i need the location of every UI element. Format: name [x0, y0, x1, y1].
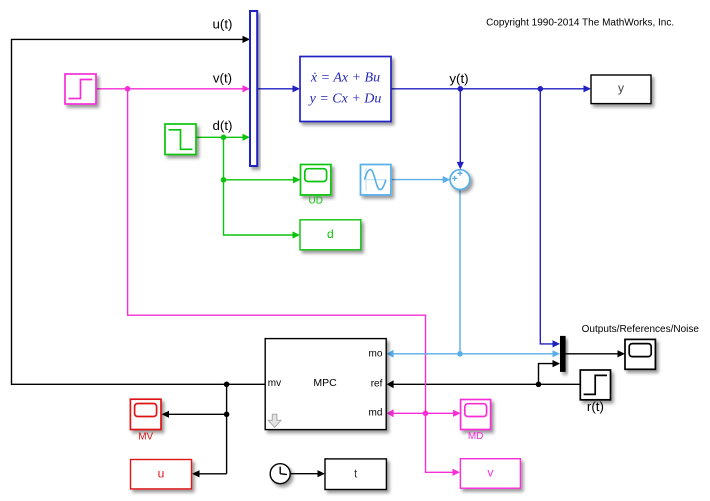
junction d(t) line [221, 135, 227, 141]
step source d(t) [165, 124, 196, 155]
junction y(t) to mux M2 [538, 86, 544, 92]
svg-text:ẋ = Ax + Bu: ẋ = Ax + Bu [310, 71, 380, 86]
junction mo line [457, 351, 463, 357]
wire v(t) branch to MPC md, MD scope and v tag [128, 89, 461, 476]
svg-text:v(t): v(t) [213, 71, 232, 86]
junction d to UD [221, 177, 227, 183]
svg-text:r(t): r(t) [587, 399, 604, 414]
u goto tag [131, 460, 192, 489]
wire mux M1 to state-space [257, 85, 300, 92]
sine wave source [361, 165, 391, 195]
wire d(t) branch to UD scope and d tag [224, 137, 301, 238]
svg-text:Outputs/References/Noise: Outputs/References/Noise [582, 324, 700, 335]
svg-text:y(t): y(t) [449, 71, 468, 86]
svg-text:MV: MV [138, 432, 153, 443]
svg-text:md: md [368, 408, 382, 419]
wire r(t) to MPC ref and mux M2 [290, 350, 625, 477]
svg-text:MD: MD [468, 431, 484, 442]
v goto tag [460, 459, 520, 489]
scope MV [130, 399, 161, 429]
svg-text:d(t): d(t) [213, 118, 233, 133]
svg-text:v: v [487, 466, 493, 480]
junction md line [423, 411, 429, 417]
wire sum output to MPC mo and mux M2 [387, 190, 560, 358]
junction v(t) line [125, 86, 131, 92]
svg-text:mv: mv [268, 378, 281, 389]
step source r(t) [580, 370, 610, 400]
mux M1 [250, 11, 257, 166]
svg-text:UD: UD [308, 195, 322, 206]
svg-text:u(t): u(t) [213, 16, 233, 31]
svg-text:MPC: MPC [313, 377, 337, 389]
junction mv to MV scope [224, 412, 230, 418]
state-space block U1 [300, 57, 391, 122]
step source v(t) [65, 74, 96, 104]
wire sine to sum [391, 176, 450, 183]
mux M2 [560, 336, 566, 372]
svg-text:y: y [618, 81, 624, 95]
junction y(t) to sum [458, 86, 464, 92]
svg-text:d: d [327, 227, 334, 241]
junction mv line [224, 382, 230, 388]
MPC controller block [265, 339, 386, 430]
svg-text:mo: mo [368, 348, 382, 359]
svg-text:ref: ref [371, 379, 383, 390]
wire d(t) step to mux M1 [196, 134, 250, 141]
y output tag [591, 75, 651, 104]
d goto tag [300, 220, 361, 250]
scope MD [461, 400, 491, 430]
svg-text:y = Cx + Du: y = Cx + Du [308, 92, 382, 107]
t output tag [325, 459, 386, 490]
svg-text:u: u [158, 466, 165, 480]
sum block [450, 170, 470, 190]
wire u(t) feedback loop (MPC mv output to mux M1) [12, 36, 266, 478]
scope UD [301, 165, 331, 195]
scope Outputs/References/Noise [625, 339, 655, 369]
clock source [270, 464, 290, 484]
wire v(t) step to mux M1 [96, 85, 250, 92]
wire y(t) from state-space to y tag [391, 85, 591, 347]
svg-text:Copyright 1990-2014 The MathWo: Copyright 1990-2014 The MathWorks, Inc. [486, 18, 674, 29]
junction ref line [536, 382, 542, 388]
